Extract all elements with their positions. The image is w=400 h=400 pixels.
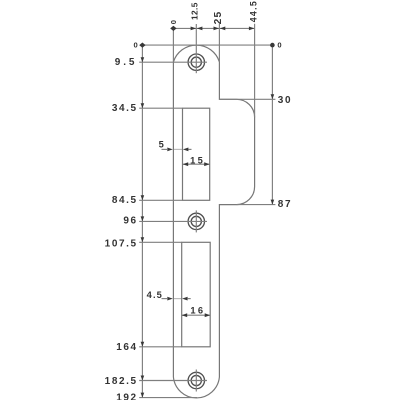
dim 5 tail left xyxy=(162,148,168,150)
deadbolt cutout (bottom rectangle) xyxy=(182,242,211,346)
screw hole bottom inner xyxy=(191,375,201,385)
svg-text:25: 25 xyxy=(213,11,224,25)
right arrow 30 xyxy=(271,94,275,99)
extension line y=87 (lip bottom) xyxy=(237,204,276,206)
dim 4.5 tail left xyxy=(162,298,168,300)
right dimension line xyxy=(271,45,273,205)
svg-text:44.5: 44.5 xyxy=(248,0,258,22)
screw hole bottom outer xyxy=(188,372,204,388)
dim 15 arrow right xyxy=(204,162,210,166)
left arrow 164 xyxy=(141,342,145,347)
svg-text:96: 96 xyxy=(123,216,137,227)
extension line y=84.5 (cutout1 bottom) xyxy=(139,199,182,201)
latch cutout (top rectangle) xyxy=(183,108,210,200)
left arrow 182.5 xyxy=(141,376,145,381)
screw hole middle outer xyxy=(188,213,204,229)
extension line y=30 (lip top) xyxy=(219,98,275,100)
dim 15 arrow left xyxy=(183,162,189,166)
svg-text:9.5: 9.5 xyxy=(115,57,138,68)
dim 16 line xyxy=(182,314,211,316)
extension line y=9.5 (top screw centerline) xyxy=(139,61,207,63)
top arrow at 12.5 pointing right xyxy=(191,27,197,31)
extension line y=34.5 (cutout1 top) xyxy=(139,107,182,109)
extension line x=12.5 / top screw vertical centerline xyxy=(195,24,197,73)
dim 16 arrow left xyxy=(182,313,188,317)
svg-text:0: 0 xyxy=(133,41,137,50)
dim 15 line xyxy=(183,163,210,165)
datum diamond top xyxy=(170,26,176,31)
svg-text:164: 164 xyxy=(116,342,138,353)
middle screw vertical centerline xyxy=(195,210,197,232)
top arrow at 12.5 pointing left xyxy=(197,27,203,31)
svg-text:4.5: 4.5 xyxy=(147,290,163,300)
extension line x=0 (plate left) xyxy=(172,28,174,62)
svg-text:5: 5 xyxy=(159,140,165,150)
extension line x=44.5 (lip right) xyxy=(254,24,256,118)
screw hole top outer xyxy=(188,54,204,70)
dim 4.5 connector xyxy=(173,298,182,300)
svg-text:30: 30 xyxy=(278,95,292,106)
top arrow at 44.5 pointing right xyxy=(249,27,255,31)
extension line y=164 (cutout2 bottom) xyxy=(139,346,182,348)
datum diamond left xyxy=(139,43,145,48)
top arrow at 25 pointing left xyxy=(220,27,226,31)
extension line y=96 (middle screw centerline) xyxy=(139,220,207,222)
dim 4.5 tail right xyxy=(188,298,191,300)
left arrow 9.5 xyxy=(141,57,145,62)
svg-text:107.5: 107.5 xyxy=(105,238,138,249)
left arrow 192 xyxy=(141,393,145,398)
left arrow 34.5 xyxy=(141,103,145,108)
svg-text:192: 192 xyxy=(116,392,138,400)
left arrow 107.5 xyxy=(141,237,145,242)
svg-text:16: 16 xyxy=(190,306,205,316)
extension line x=25 (plate right) xyxy=(218,24,220,62)
dim 5 tail right xyxy=(189,148,192,150)
screw hole middle inner xyxy=(191,216,201,226)
screw hole top inner xyxy=(191,57,201,67)
dim 4.5 arrow into cutout edge xyxy=(182,297,188,301)
svg-text:84.5: 84.5 xyxy=(112,195,138,206)
bottom screw vertical centerline xyxy=(195,370,197,392)
left dimension line xyxy=(141,45,143,398)
extension line y=0 (plate top) xyxy=(142,44,272,46)
dim 16 arrow right xyxy=(205,313,211,317)
dim 5 arrow into plate edge xyxy=(167,148,173,152)
extension line y=107.5 (cutout2 top) xyxy=(139,241,182,243)
right arrow 87 xyxy=(271,200,275,205)
datum dot right xyxy=(270,43,275,48)
top dimension line xyxy=(173,27,254,29)
extension line y=182.5 (bottom screw centerline) xyxy=(139,380,207,382)
left arrow 96 xyxy=(141,216,145,221)
svg-text:0: 0 xyxy=(169,20,178,24)
dim 5 arrow into cutout edge xyxy=(183,148,189,152)
svg-text:0: 0 xyxy=(277,41,281,50)
svg-text:182.5: 182.5 xyxy=(105,376,138,387)
svg-text:12.5: 12.5 xyxy=(189,2,199,20)
left arrow 84.5 xyxy=(141,195,145,200)
svg-text:15: 15 xyxy=(190,155,205,165)
svg-text:87: 87 xyxy=(278,199,292,210)
plate outline xyxy=(173,45,254,398)
top arrow at 25 pointing right xyxy=(214,27,220,31)
dim 5 connector xyxy=(173,148,183,150)
svg-text:34.5: 34.5 xyxy=(112,103,138,114)
extension line y=192 (plate bottom) xyxy=(139,397,197,399)
dim 4.5 arrow into plate edge xyxy=(167,297,173,301)
